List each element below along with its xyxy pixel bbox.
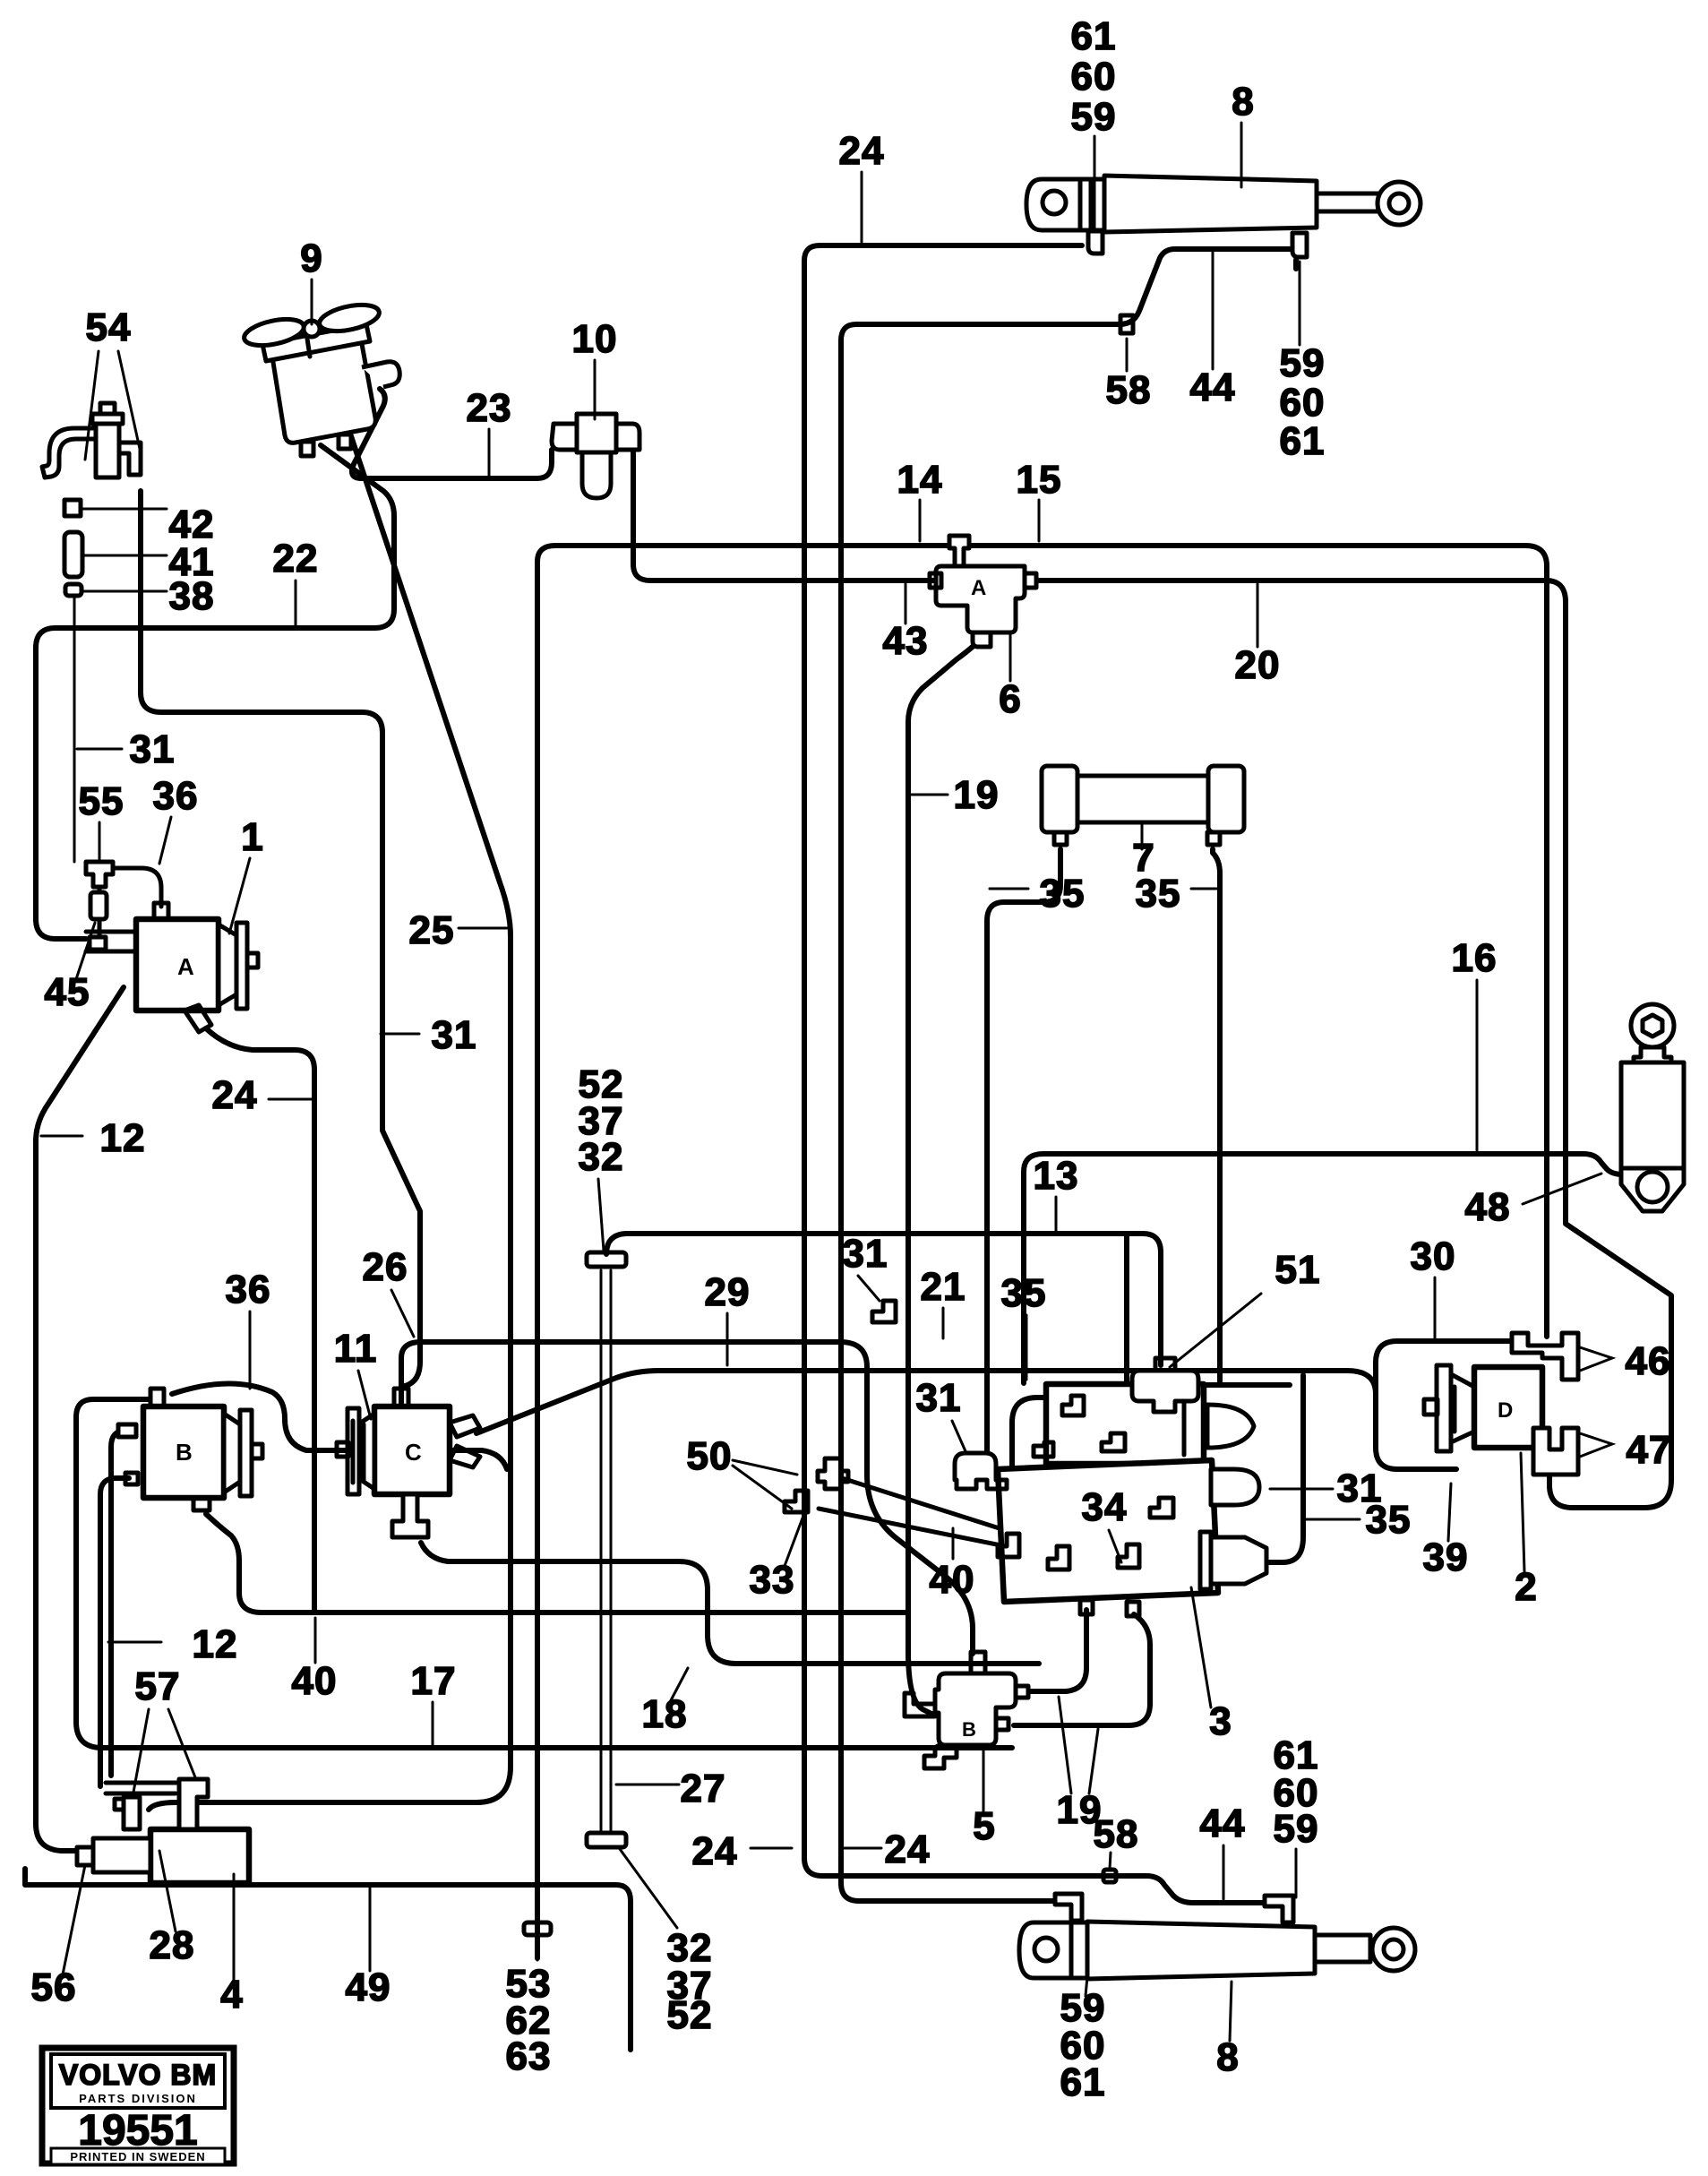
small elbows in upper box xyxy=(1062,1396,1084,1415)
arrow to 47 xyxy=(1580,1433,1612,1457)
cylinder 8 top xyxy=(1026,176,1420,257)
filter 10 xyxy=(552,414,639,498)
wire 18: valve C foot right and down across xyxy=(421,1543,1039,1664)
bottom stubs xyxy=(1080,1600,1093,1614)
svg-text:63: 63 xyxy=(506,2034,552,2078)
wire 35 right: cylinder 7 right port down to pump top xyxy=(1213,849,1220,1381)
svg-text:61: 61 xyxy=(1071,14,1117,58)
capsule 45 xyxy=(90,892,107,919)
svg-text:56: 56 xyxy=(31,1965,77,2009)
svg-text:A: A xyxy=(177,953,194,980)
svg-text:33: 33 xyxy=(750,1558,795,1602)
svg-text:35: 35 xyxy=(1136,872,1181,916)
svg-text:44: 44 xyxy=(1200,1802,1246,1845)
collar 53 xyxy=(524,1922,551,1935)
valve C motor xyxy=(337,1389,480,1537)
svg-text:9: 9 xyxy=(300,237,322,280)
wire 53 vertical lower part with collar xyxy=(536,1935,539,1960)
svg-text:21: 21 xyxy=(921,1265,966,1309)
rounded loop around pump lower box (35 right side) xyxy=(1124,1236,1129,1385)
svg-text:59: 59 xyxy=(1071,95,1117,139)
fittings 50 on vertical pipes xyxy=(818,1458,848,1489)
svg-text:24: 24 xyxy=(839,129,885,173)
svg-text:43: 43 xyxy=(883,619,929,663)
wire from fitting 50 tee to pump elbow xyxy=(842,1478,1044,1543)
valve 54 assembly top left xyxy=(42,403,141,477)
fitting 42 xyxy=(64,500,81,516)
wire 16: pump top to cylinder 48 xyxy=(1024,1154,1628,1383)
elbow fitting 31 on wire 19a xyxy=(872,1301,896,1322)
wire 49: baseline from under 56 right then down xyxy=(25,1869,631,2050)
wire 14/15: long run from left vertical to fitting 46 xyxy=(537,546,1547,1958)
bottom bullet xyxy=(1211,1537,1266,1584)
svg-text:12: 12 xyxy=(100,1116,146,1160)
wire 24 second run: top cylinder right port via 58 fitting down to bottom cylinder left port xyxy=(841,249,1292,1901)
svg-text:50: 50 xyxy=(687,1434,733,1478)
wire 44 top: short under top cylinder xyxy=(1293,260,1299,269)
wire 24 top run: top cylinder left port down left side to bottom cylinder area xyxy=(804,245,1103,1876)
svg-text:44: 44 xyxy=(1190,366,1236,409)
wire 43: filter to valve A xyxy=(633,452,936,581)
svg-text:19: 19 xyxy=(954,773,1000,817)
svg-text:27: 27 xyxy=(681,1767,726,1810)
lower box (slightly rotated) xyxy=(998,1460,1218,1602)
svg-text:31: 31 xyxy=(130,727,176,771)
wire from tee 51 right toward loop xyxy=(1195,1382,1290,1388)
pipe 27 double line down to bottom fitting xyxy=(600,1270,603,1833)
fitting 27 top collar xyxy=(587,1252,626,1267)
svg-text:61: 61 xyxy=(1280,419,1326,463)
svg-text:52: 52 xyxy=(667,1993,713,2037)
wire from fitting 50 elbow to pump elbow xyxy=(819,1509,1121,1570)
wire from tee 55 down to capsule 45 xyxy=(98,887,102,935)
part 41 capsule xyxy=(64,532,82,577)
svg-text:35: 35 xyxy=(1366,1498,1412,1542)
wire 24 from valve A1 bottom down to line 40 xyxy=(206,1028,314,1611)
svg-text:28: 28 xyxy=(150,1923,195,1967)
wire 19c: pump right stub down loop to valve 5 lower right port xyxy=(1014,1614,1150,1725)
svg-text:6: 6 xyxy=(999,677,1021,721)
wire 22: reservoir to valve A left port xyxy=(36,445,394,939)
svg-text:8: 8 xyxy=(1216,2035,1239,2079)
fitting 38 xyxy=(65,584,82,596)
svg-text:18: 18 xyxy=(642,1692,688,1736)
cylinder 48 right side xyxy=(1621,1004,1684,1211)
svg-text:40: 40 xyxy=(292,1659,338,1703)
cone in upper box xyxy=(1207,1405,1254,1448)
svg-text:38: 38 xyxy=(169,574,215,618)
svg-text:17: 17 xyxy=(411,1659,457,1703)
wire 25: reservoir down diagonal to fitting 57 xyxy=(149,436,511,1810)
svg-text:45: 45 xyxy=(45,970,90,1014)
elbows in lower box (34) xyxy=(998,1534,1019,1557)
svg-text:12: 12 xyxy=(193,1622,238,1666)
svg-text:36: 36 xyxy=(153,774,199,818)
wire from bottom bullet to rounded loop right edge xyxy=(1265,1560,1283,1565)
wire from valve B1 lower left port down to fitting 57 xyxy=(100,1478,129,1786)
svg-text:25: 25 xyxy=(409,908,455,952)
wire 19b: pump left stub down to valve 5 right mid port xyxy=(1030,1610,1086,1691)
svg-text:35: 35 xyxy=(1040,872,1086,916)
valve 5 block B xyxy=(905,1652,1028,1768)
svg-text:60: 60 xyxy=(1071,55,1117,99)
wire 29: valve C upper right elbow to loop 30 xyxy=(476,1371,1376,1433)
svg-text:47: 47 xyxy=(1626,1428,1672,1472)
pump 4 assembly bottom left xyxy=(77,1779,249,1883)
wire 36: tee 55 to valve A top port xyxy=(113,868,161,907)
svg-text:16: 16 xyxy=(1452,936,1498,980)
svg-text:30: 30 xyxy=(1411,1234,1456,1278)
valve D xyxy=(1424,1365,1542,1451)
VOLVO BM logo box xyxy=(42,2048,234,2164)
svg-text:PRINTED IN SWEDEN: PRINTED IN SWEDEN xyxy=(70,2150,205,2163)
svg-text:29: 29 xyxy=(705,1270,751,1314)
svg-text:B: B xyxy=(962,1718,976,1741)
svg-text:55: 55 xyxy=(79,779,124,823)
svg-text:13: 13 xyxy=(1034,1154,1079,1198)
fitting 46 xyxy=(1512,1333,1578,1380)
wire 17: valve B1 top left port down and across to valve 5 xyxy=(76,1399,1012,1748)
tee 51 on top xyxy=(1132,1371,1198,1412)
capsule item 31d xyxy=(1211,1469,1259,1505)
svg-text:39: 39 xyxy=(1423,1535,1469,1579)
wire 26/21: valve C top to pump top left xyxy=(401,1342,973,1654)
svg-text:2: 2 xyxy=(1515,1565,1537,1609)
svg-text:51: 51 xyxy=(1275,1248,1321,1292)
svg-text:PARTS DIVISION: PARTS DIVISION xyxy=(79,2092,197,2105)
svg-text:40: 40 xyxy=(930,1558,975,1602)
svg-text:57: 57 xyxy=(135,1664,181,1708)
valve A motor (item 1) xyxy=(86,903,258,1032)
svg-text:49: 49 xyxy=(346,1965,391,2009)
svg-text:32: 32 xyxy=(579,1135,624,1179)
svg-text:36: 36 xyxy=(226,1268,271,1312)
svg-text:46: 46 xyxy=(1626,1339,1671,1383)
fitting 47 xyxy=(1533,1428,1578,1475)
svg-text:61: 61 xyxy=(1060,2060,1106,2104)
svg-text:31: 31 xyxy=(432,1013,477,1057)
wire 19a: valve A bottom port to valve 5 left elbow xyxy=(908,632,987,1715)
svg-text:1: 1 xyxy=(241,815,263,859)
wire 12b: valve B1 left mid port down to fitting 57 xyxy=(111,1431,133,1776)
pump block 3 assembly xyxy=(955,1358,1303,1616)
svg-text:11: 11 xyxy=(334,1327,378,1371)
svg-text:58: 58 xyxy=(1094,1812,1139,1856)
wire 24/44 to 58 fitting and bottom cylinder right port xyxy=(1103,1876,1279,1903)
svg-text:B: B xyxy=(176,1439,193,1466)
svg-text:54: 54 xyxy=(86,305,132,349)
valve A block (items 6/43) xyxy=(930,536,1036,647)
svg-text:59: 59 xyxy=(1274,1807,1319,1851)
svg-text:60: 60 xyxy=(1280,381,1326,425)
svg-text:D: D xyxy=(1498,1398,1513,1423)
wire 31/38 thin: fitting 38 down to tee 55 xyxy=(73,598,76,862)
svg-text:34: 34 xyxy=(1082,1485,1128,1529)
wire 12 left: valve A bottom left down to nub 56 xyxy=(36,987,124,1851)
svg-text:26: 26 xyxy=(363,1245,408,1289)
svg-text:24: 24 xyxy=(885,1828,931,1871)
svg-text:22: 22 xyxy=(273,537,319,581)
svg-text:A: A xyxy=(971,576,986,600)
svg-text:20: 20 xyxy=(1235,643,1281,687)
reservoir 9 with propeller xyxy=(242,300,399,456)
svg-text:8: 8 xyxy=(1232,80,1254,124)
svg-text:14: 14 xyxy=(897,458,943,502)
elbow at end of 35 left wire xyxy=(955,1453,1007,1489)
valve B1 motor xyxy=(118,1389,262,1510)
wire 35 left: cylinder 7 left port down to pump elbow xyxy=(987,849,1060,1451)
wire 40: valve B1 bottom port right to valve 5 top stub xyxy=(206,1514,905,1613)
svg-text:31: 31 xyxy=(843,1232,888,1276)
svg-text:24: 24 xyxy=(212,1073,258,1117)
svg-text:3: 3 xyxy=(1209,1699,1232,1743)
cylinder 8 bottom xyxy=(1019,1894,1415,1979)
fitting 58 bottom xyxy=(1103,1870,1116,1882)
wire 31b: valve 54 down across and down to valve C xyxy=(141,491,420,1387)
fitting 27 bottom collar xyxy=(587,1833,626,1847)
cylinder 7 xyxy=(1042,766,1244,845)
arrow to 46 xyxy=(1580,1347,1612,1371)
tee 55 xyxy=(86,862,113,887)
svg-text:35: 35 xyxy=(1001,1271,1047,1315)
svg-text:48: 48 xyxy=(1465,1185,1511,1229)
svg-text:VOLVO BM: VOLVO BM xyxy=(59,2059,217,2091)
port fitting right under cylinder 8 top xyxy=(1292,233,1307,257)
wire 13: fitting 27 top over to tee 51 xyxy=(606,1234,1161,1365)
svg-text:31: 31 xyxy=(916,1376,962,1420)
wire 23: reservoir elbow to filter xyxy=(352,389,552,478)
port fitting left under cylinder 8 top xyxy=(1088,231,1103,254)
loop 30 around valve D xyxy=(1376,1341,1510,1469)
svg-text:59: 59 xyxy=(1280,341,1326,385)
svg-text:15: 15 xyxy=(1017,458,1062,502)
fitting 58 top xyxy=(1120,315,1133,333)
svg-text:C: C xyxy=(405,1439,422,1466)
svg-text:10: 10 xyxy=(572,317,618,361)
rounded hose loop around pump xyxy=(1012,1375,1303,1562)
wire 36b: valve B1 top arc over and down to valve C area xyxy=(172,1383,507,1469)
svg-text:58: 58 xyxy=(1106,368,1152,412)
wire 20: valve A right to loop around cylinder 48 down to fitting 47 xyxy=(1037,581,1671,1508)
svg-text:4: 4 xyxy=(220,1973,243,2017)
svg-text:23: 23 xyxy=(467,386,512,430)
upper box xyxy=(1046,1384,1204,1464)
svg-text:24: 24 xyxy=(692,1829,738,1873)
